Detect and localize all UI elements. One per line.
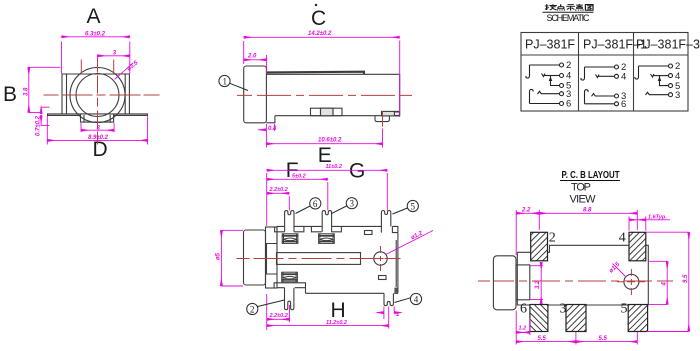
hole crosshair vertical bbox=[380, 246, 382, 271]
svg-text:PJ–381F: PJ–381F bbox=[525, 38, 575, 52]
table frame bbox=[521, 33, 688, 112]
svg-text:ø3.5: ø3.5 bbox=[126, 60, 140, 73]
svg-text:TOP: TOP bbox=[571, 182, 591, 194]
column divider 2 bbox=[633, 33, 635, 112]
wire to terminal 6 bbox=[530, 103, 560, 105]
svg-text:ø5: ø5 bbox=[216, 252, 222, 260]
balloon 6 bbox=[296, 198, 321, 214]
center slot bar bbox=[277, 253, 361, 265]
bottom tab inner lines bbox=[83, 116, 85, 123]
ext pad2 center bbox=[538, 210, 540, 230]
bottom middle feature middle fill bbox=[321, 108, 334, 116]
svg-text:4: 4 bbox=[619, 231, 626, 246]
pad gap dim exts bbox=[530, 265, 543, 267]
ext pad45 center bbox=[636, 210, 638, 230]
pin 6 shaft and fork bbox=[285, 211, 294, 232]
svg-text:1: 1 bbox=[223, 77, 228, 87]
dim 0.8 marks bbox=[273, 124, 275, 131]
svg-text:10.6±0.2: 10.6±0.2 bbox=[318, 138, 342, 144]
svg-text:5: 5 bbox=[621, 302, 628, 317]
svg-text:6: 6 bbox=[520, 302, 527, 317]
svg-text:2: 2 bbox=[250, 305, 255, 315]
cell 1 circuit PJ-381F bbox=[526, 63, 564, 106]
pin 5 body step bbox=[392, 226, 398, 232]
pin 4 corner block bbox=[394, 288, 397, 293]
wire to terminal 6 bbox=[585, 103, 615, 105]
bottom middle inner lines bbox=[321, 108, 334, 116]
dim 1.6 line bbox=[629, 219, 646, 221]
pad 3 bbox=[566, 305, 586, 332]
terminal circles cell 2 bbox=[615, 65, 619, 69]
centerline horizontal bbox=[44, 94, 159, 96]
wire to terminal 3 bbox=[650, 94, 669, 96]
bottom middle feature bbox=[311, 108, 343, 116]
dim 6.3 extension lines bbox=[61, 42, 63, 73]
dim 3.8 connectors bbox=[29, 66, 60, 68]
svg-text:2.2±0.2: 2.2±0.2 bbox=[269, 313, 288, 319]
housing body top edge bbox=[277, 226, 398, 243]
centerline vertical bbox=[97, 58, 99, 144]
wire to terminal 4 bbox=[599, 75, 615, 77]
svg-text:4: 4 bbox=[414, 295, 419, 305]
ext line left body bbox=[266, 173, 268, 226]
dim 10.6 line bbox=[266, 143, 382, 145]
dim 1.2 marks bbox=[529, 318, 531, 335]
pad 5 bbox=[628, 305, 647, 332]
housing body bottom edge bbox=[306, 292, 398, 294]
dim 3 bottom line bbox=[81, 129, 114, 131]
mounting flange bbox=[48, 114, 148, 116]
far right connector bottom bbox=[647, 331, 689, 333]
pin1 red centerline bbox=[382, 111, 384, 127]
cap outline top view bbox=[493, 256, 516, 310]
terminal numbers cell 3 bbox=[675, 61, 680, 101]
ext left x516 bbox=[515, 210, 517, 255]
dim 6.3 line bbox=[62, 36, 130, 38]
dim 3 top ext bbox=[97, 55, 99, 59]
svg-text:5.5: 5.5 bbox=[599, 336, 608, 342]
contact v mark 2 bbox=[596, 75, 600, 78]
dot above C bbox=[315, 4, 317, 6]
bottom dim line 5.5 5.5 bbox=[516, 341, 576, 343]
svg-text:SCHEMATIC: SCHEMATIC bbox=[547, 13, 591, 23]
header separator bbox=[521, 54, 688, 56]
tick line right bbox=[113, 60, 115, 74]
svg-text:3: 3 bbox=[675, 90, 680, 101]
top cover edge bbox=[267, 72, 364, 75]
title underline bbox=[543, 11, 594, 13]
ext line F pin3 bbox=[327, 182, 329, 211]
dia5 connectors bbox=[221, 229, 243, 231]
spring 3 bbox=[319, 234, 335, 244]
svg-text:P. C. B LAYOUT: P. C. B LAYOUT bbox=[562, 170, 620, 181]
bottom tab bbox=[81, 115, 114, 122]
bottom right wire hoop bbox=[375, 116, 389, 122]
title underline bbox=[560, 180, 620, 182]
spring 2 bottom bbox=[282, 272, 298, 282]
spring 6 bbox=[282, 234, 298, 244]
ext pin4 left bbox=[383, 307, 385, 320]
svg-text:5±0.2: 5±0.2 bbox=[292, 174, 306, 180]
svg-text:2.2: 2.2 bbox=[521, 207, 531, 213]
balloon 4 bbox=[395, 293, 422, 304]
hole crosshair horizontal bbox=[368, 258, 394, 260]
main housing body bbox=[266, 74, 399, 115]
centerline middle view bbox=[237, 258, 401, 260]
dim 11.2 line bbox=[267, 325, 389, 327]
terminal numbers cell 2 bbox=[621, 62, 626, 110]
dim F line 5 bbox=[267, 178, 328, 180]
pcb body outline bbox=[517, 245, 648, 305]
cell 2 circuit PJ-381F-1 bbox=[581, 65, 619, 106]
ext line left body bottom bbox=[266, 294, 268, 330]
pad 2 bbox=[531, 232, 548, 260]
char dian3 bbox=[557, 4, 565, 10]
svg-text:11±0.2: 11±0.2 bbox=[326, 164, 342, 170]
pad 6 bbox=[530, 305, 548, 332]
svg-text:11.2±0.2: 11.2±0.2 bbox=[326, 320, 347, 326]
wire to terminal 2 bbox=[585, 66, 615, 68]
dia1.5 leader bbox=[613, 264, 627, 278]
branch to terminal 5 bbox=[551, 76, 560, 86]
dim 1.6 tail bbox=[646, 219, 670, 221]
dim 8.9 extensions bbox=[46, 117, 48, 145]
dim 1.6 exts bbox=[628, 217, 630, 231]
pin 5 shaft and fork bbox=[381, 211, 390, 233]
dim 1 arrows bbox=[377, 312, 384, 314]
pin 6 shoulder bbox=[275, 226, 304, 231]
title CJK 按点示意图 bbox=[545, 4, 593, 11]
ext 11.2 pin4 center bbox=[388, 307, 390, 329]
ring spring hook 1 bbox=[530, 89, 534, 103]
tip spring hook 1 bbox=[526, 65, 530, 78]
right dim 4 exts bbox=[649, 260, 667, 262]
svg-text:A: A bbox=[87, 5, 101, 28]
front plate bbox=[266, 227, 278, 288]
svg-text:0.7±0.2: 0.7±0.2 bbox=[36, 115, 42, 136]
wire to terminal 2 bbox=[530, 64, 560, 66]
svg-text:B: B bbox=[3, 83, 17, 106]
body inner left line bbox=[66, 74, 68, 114]
pin 2 shaft and fork bbox=[285, 288, 294, 310]
housing body right edge bbox=[396, 233, 398, 294]
tip spring hook 3 bbox=[635, 66, 639, 79]
wire to terminal 4 bbox=[654, 75, 669, 77]
plated hole bbox=[624, 274, 639, 289]
wire to terminal 4 bbox=[545, 75, 560, 77]
pin 4 shaft and fork bbox=[384, 293, 393, 305]
dim 0.7 connectors bbox=[41, 106, 49, 108]
small rect top right bbox=[365, 231, 373, 235]
svg-text:3: 3 bbox=[350, 199, 355, 209]
svg-text:5.5: 5.5 bbox=[538, 336, 547, 342]
wire to terminal 3 bbox=[596, 95, 615, 97]
ext pad45 center bottom bbox=[636, 332, 638, 345]
hole crosshair v bbox=[630, 269, 632, 295]
dim 8.9 line bbox=[47, 139, 147, 141]
dim E line 11 bbox=[267, 169, 388, 171]
dim 0.7 line bbox=[40, 107, 42, 114]
extension line right bbox=[399, 41, 401, 118]
svg-text:14.2±0.2: 14.2±0.2 bbox=[308, 31, 332, 37]
jack body rectangle bbox=[62, 74, 129, 114]
balloon 3 bbox=[331, 198, 357, 214]
far right connector top bbox=[647, 231, 689, 233]
svg-text:4: 4 bbox=[621, 72, 626, 83]
column divider 1 bbox=[578, 33, 580, 112]
svg-text:1.6Typ.: 1.6Typ. bbox=[648, 215, 667, 221]
contact v mark 3 bbox=[651, 74, 655, 77]
dim 3 top line bbox=[98, 55, 130, 57]
svg-text:2.0: 2.0 bbox=[247, 54, 257, 60]
centerline C view bbox=[237, 94, 412, 96]
dim 2.0 line bbox=[244, 59, 267, 61]
svg-text:6: 6 bbox=[566, 99, 571, 110]
outer barrel circle bbox=[70, 68, 125, 123]
svg-text:6.3±0.2: 6.3±0.2 bbox=[85, 31, 106, 37]
ext pad3 center bbox=[575, 332, 577, 345]
hole circle bbox=[374, 252, 387, 265]
branch to terminal 5 bbox=[660, 76, 669, 86]
dim 14.2 line bbox=[244, 36, 400, 38]
dim 2.2 line bbox=[516, 212, 539, 214]
svg-text:6: 6 bbox=[313, 199, 318, 209]
svg-text:C: C bbox=[311, 7, 326, 30]
dia1.2 leader bbox=[386, 231, 433, 255]
extension line cap rear top bbox=[266, 55, 268, 73]
contact caret 2 bbox=[592, 94, 596, 97]
pcb centerline bbox=[478, 280, 673, 282]
balloon 1 bbox=[219, 75, 248, 90]
hole crosshair h bbox=[617, 281, 645, 283]
char yi4 bbox=[575, 4, 583, 11]
tick line left bbox=[80, 60, 82, 74]
terminal circles cell 1 bbox=[560, 63, 564, 67]
svg-text:3.2: 3.2 bbox=[535, 280, 541, 289]
extension line cap rear bottom bbox=[265, 124, 267, 148]
wire to terminal 2 bbox=[639, 65, 669, 67]
bottom left tab bbox=[266, 116, 275, 123]
dim 8.8 line bbox=[539, 212, 637, 214]
pin 3 shaft and fork bbox=[322, 211, 331, 232]
contact caret 1 bbox=[538, 91, 542, 94]
pin 2 shoulder bbox=[274, 283, 305, 294]
svg-text:H: H bbox=[331, 299, 346, 322]
cap inner step bbox=[516, 265, 530, 300]
balloon 2 bbox=[247, 300, 285, 315]
char tu2 bbox=[585, 5, 593, 11]
inner hole circle bbox=[76, 74, 119, 117]
body inner right line bbox=[124, 74, 126, 114]
contact caret 3 bbox=[646, 92, 650, 95]
actuator arrow cell1 bbox=[550, 78, 552, 81]
svg-text:2.2±0.2: 2.2±0.2 bbox=[269, 187, 288, 193]
dia5 dim line bbox=[220, 230, 222, 286]
svg-text:5: 5 bbox=[411, 202, 416, 212]
actuator arrow cell3 bbox=[659, 78, 661, 81]
cell 3 circuit PJ-381F-3 bbox=[635, 64, 673, 97]
svg-text:6: 6 bbox=[621, 99, 626, 110]
dim 2.2 top line bbox=[267, 192, 290, 194]
svg-text:3: 3 bbox=[560, 302, 567, 317]
front cap bbox=[244, 66, 267, 123]
front plate step bbox=[267, 244, 278, 275]
char an4 bbox=[545, 4, 557, 10]
svg-text:2: 2 bbox=[566, 60, 571, 71]
svg-text:2: 2 bbox=[549, 231, 556, 246]
svg-text:D: D bbox=[93, 138, 108, 161]
svg-text:9.5: 9.5 bbox=[683, 274, 689, 283]
right dim 4 line bbox=[666, 261, 668, 304]
pad gap dim line bbox=[540, 262, 542, 304]
ring spring hook 2 bbox=[585, 90, 589, 104]
pad 4 bbox=[629, 232, 646, 260]
bottom right lug white notch bbox=[394, 112, 399, 115]
contact v mark 1 bbox=[542, 74, 546, 77]
svg-text:0.8: 0.8 bbox=[268, 126, 277, 132]
wire to terminal 3 bbox=[542, 93, 560, 95]
svg-text:ø1.5: ø1.5 bbox=[608, 261, 621, 274]
front cap side bbox=[244, 230, 266, 285]
terminal numbers cell 1 bbox=[566, 60, 571, 110]
svg-text:1.2: 1.2 bbox=[519, 326, 527, 332]
svg-text:3.8: 3.8 bbox=[23, 87, 29, 96]
svg-text:ø1.2: ø1.2 bbox=[410, 230, 424, 241]
extension line left cap bbox=[243, 41, 245, 64]
svg-text:VIEW: VIEW bbox=[570, 194, 597, 206]
ext line E right bbox=[386, 173, 388, 211]
small rect bottom right bbox=[379, 276, 387, 280]
far right dim 9.5 line bbox=[688, 232, 690, 331]
pin 3 shoulder bbox=[311, 226, 341, 231]
svg-text:G: G bbox=[349, 159, 365, 182]
svg-text:4: 4 bbox=[662, 282, 668, 287]
ext pin4 right bbox=[393, 307, 395, 314]
svg-text:PJ–381F–3: PJ–381F–3 bbox=[636, 38, 700, 52]
svg-text:8.9±0.2: 8.9±0.2 bbox=[88, 135, 109, 141]
tip spring hook 2 bbox=[581, 67, 585, 80]
dim 3.8 line bbox=[28, 67, 30, 112]
dim 2.2 bottom line bbox=[267, 318, 290, 320]
ext line 2.2 pin6 bbox=[288, 196, 290, 211]
leader dia3.5 bbox=[115, 63, 133, 79]
dim 3 bottom extensions bbox=[80, 123, 82, 131]
ext 2.2 bottom pin2 bbox=[289, 305, 291, 322]
extension line pin1 bbox=[382, 129, 384, 148]
balloon 5 bbox=[393, 200, 419, 214]
terminal circles cell 3 bbox=[669, 64, 673, 68]
char shi4 bbox=[566, 5, 575, 11]
svg-text:8.8: 8.8 bbox=[583, 207, 592, 213]
bottom right lug plate bbox=[382, 111, 400, 116]
